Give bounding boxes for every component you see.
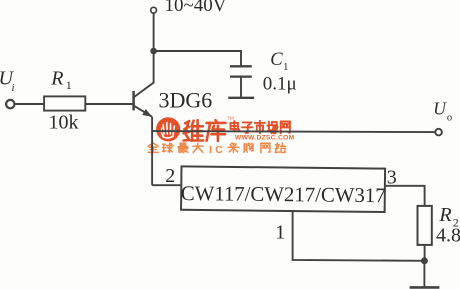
transistor Q1 base bar <box>132 91 135 110</box>
wire: R1 to base <box>85 103 132 105</box>
label Ui <box>0 68 15 95</box>
svg-text:C: C <box>270 50 283 70</box>
terminal: +V supply <box>151 7 157 13</box>
wire: IC pin 1 to ground node <box>293 211 425 260</box>
svg-text:U: U <box>433 98 447 118</box>
ground <box>410 286 440 289</box>
svg-text:WWW.DZSC.COM: WWW.DZSC.COM <box>235 135 295 142</box>
wire: IC pin 3 to R2 <box>386 186 425 206</box>
transistor Q1 collector <box>134 51 154 97</box>
svg-text:TM: TM <box>227 115 234 120</box>
svg-text:3DG6: 3DG6 <box>159 88 213 113</box>
resistor R1 <box>44 96 85 110</box>
label C1 <box>270 50 288 73</box>
watermark logo circle <box>156 117 180 141</box>
svg-text:0.1μ: 0.1μ <box>263 73 297 94</box>
watermark text DIANZISHICHANGWANG (电子市场网) <box>231 121 290 134</box>
wire: emitter down to pin2 level <box>151 117 153 186</box>
wire: top rail to capacitor <box>154 51 241 66</box>
resistor R2 <box>418 206 432 245</box>
svg-text:2: 2 <box>165 165 175 187</box>
junction: ground node <box>421 257 428 264</box>
label Uo <box>433 98 452 123</box>
wire: capacitor to ground <box>240 77 242 97</box>
svg-text:1: 1 <box>66 78 72 92</box>
op-amp/regulator U1 CW117/CW217/CW317 <box>181 166 386 212</box>
terminal: input Ui <box>6 100 14 108</box>
ground under C1 <box>228 97 254 99</box>
watermark slogan (全球最大IC采购网站) <box>148 143 286 156</box>
svg-text:R: R <box>50 67 63 89</box>
svg-text:C: C <box>215 144 223 156</box>
label R1 <box>50 67 72 92</box>
transistor Q1 emitter with arrow <box>134 106 152 117</box>
junction: collector node <box>150 48 157 55</box>
label R2 <box>438 204 458 230</box>
wire: input to R1 <box>15 103 44 105</box>
wire: R2 to ground node <box>424 245 426 261</box>
capacitor C1 plates <box>230 66 252 76</box>
svg-text:o: o <box>447 112 452 123</box>
wire: output line <box>152 131 435 132</box>
wire: node to IC pin 2 <box>152 184 181 186</box>
svg-text:10k: 10k <box>49 111 79 133</box>
terminal: output Uo <box>435 129 442 136</box>
svg-text:CW117/CW217/CW317: CW117/CW217/CW317 <box>181 182 386 207</box>
wire: supply to collector node <box>153 13 155 51</box>
watermark text WEIKU (维库) <box>184 120 226 141</box>
wire: node to ground <box>423 261 425 287</box>
svg-text:R: R <box>438 204 451 226</box>
svg-text:I: I <box>209 144 212 156</box>
svg-text:1: 1 <box>275 221 285 243</box>
svg-text:1: 1 <box>283 61 289 73</box>
svg-text:i: i <box>12 82 15 94</box>
svg-text:4.8: 4.8 <box>436 225 460 247</box>
svg-text:10~40V: 10~40V <box>165 0 227 16</box>
